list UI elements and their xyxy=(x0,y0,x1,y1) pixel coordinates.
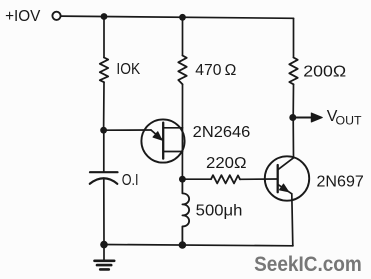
ujt U1 2N2646 xyxy=(141,119,184,162)
svg-text:500μh: 500μh xyxy=(196,202,243,219)
node VOUT arrow xyxy=(293,113,322,122)
terminal +10V xyxy=(52,12,60,20)
wire right branch top xyxy=(293,18,295,57)
svg-text:O.I: O.I xyxy=(122,172,139,189)
resistor 10K xyxy=(100,58,108,83)
wire left branch upper xyxy=(103,17,105,58)
wire middle junction to 220 xyxy=(182,178,211,180)
ground xyxy=(95,245,115,270)
wire emitter down xyxy=(292,194,293,246)
wire 220 to base xyxy=(240,178,277,180)
svg-text:+IOV: +IOV xyxy=(5,8,41,25)
wire left branch middle xyxy=(103,82,105,130)
wire emitter horizontal xyxy=(104,129,151,131)
svg-text:200Ω: 200Ω xyxy=(303,63,346,80)
wire top rail xyxy=(61,16,294,18)
junction dot top left xyxy=(101,13,108,20)
svg-text:IOK: IOK xyxy=(116,61,140,78)
junction dot top middle xyxy=(179,14,186,21)
svg-text:470 Ω: 470 Ω xyxy=(195,62,236,79)
wire middle branch upper xyxy=(182,18,184,56)
junction dot bottom middle xyxy=(179,241,187,249)
wire vout to 200 xyxy=(292,84,294,117)
wire left branch lower xyxy=(103,179,105,245)
wire bottom rail xyxy=(104,245,293,246)
junction dot emitter xyxy=(100,127,107,134)
resistor 470 xyxy=(178,56,186,85)
capacitor 0.1 xyxy=(90,172,118,184)
wire left branch to capacitor xyxy=(103,130,105,172)
wire middle branch middle xyxy=(181,84,183,179)
inductor 500uh xyxy=(182,179,189,245)
resistor 200 xyxy=(289,58,297,85)
junction dot 220 xyxy=(179,176,186,183)
svg-text:SeekIC.com: SeekIC.com xyxy=(254,253,362,276)
bjt Q1 2N697 xyxy=(265,156,309,200)
junction dot bottom left xyxy=(100,241,108,249)
junction dot vout xyxy=(289,114,296,121)
svg-text:2N2646: 2N2646 xyxy=(193,124,251,141)
resistor 220 xyxy=(211,175,240,183)
svg-text:2N697: 2N697 xyxy=(317,174,364,191)
svg-text:OUT: OUT xyxy=(336,115,362,127)
svg-text:220Ω: 220Ω xyxy=(206,155,247,172)
wire collector up xyxy=(292,118,294,158)
